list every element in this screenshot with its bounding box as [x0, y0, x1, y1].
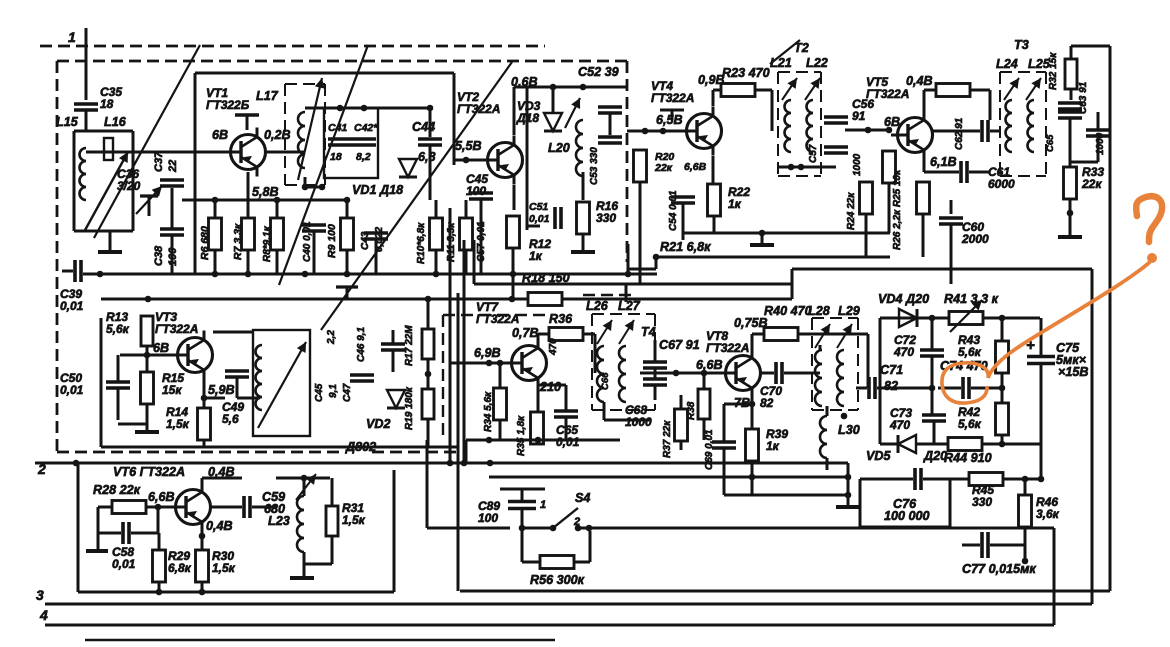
svg-text:1,5к: 1,5к: [166, 417, 190, 431]
resistor R37: [662, 409, 688, 458]
svg-text:0,7В: 0,7В: [512, 326, 539, 340]
capacitor C63: [1058, 81, 1089, 118]
resistor R12: [507, 216, 552, 263]
svg-text:R38: R38: [686, 401, 697, 420]
capacitor C69 label: [704, 429, 715, 470]
svg-text:2,2: 2,2: [326, 330, 337, 345]
svg-text:L24: L24: [996, 57, 1018, 71]
wire R56 loop: [522, 531, 590, 562]
orange question mark: [1136, 196, 1162, 242]
svg-text:R41 3,3 к: R41 3,3 к: [944, 292, 999, 306]
capacitor C46: [381, 344, 405, 350]
wire C45 col: [480, 200, 483, 274]
svg-text:9,1: 9,1: [328, 384, 339, 398]
resistor R25: [883, 151, 904, 250]
inductor L29 label: [838, 304, 860, 318]
transistor VT7 label: [476, 300, 519, 326]
wire C44 up: [429, 108, 432, 137]
inductor L28 label: [808, 304, 830, 318]
svg-text:5,6к: 5,6к: [106, 322, 130, 336]
L22 coil: [807, 100, 814, 152]
svg-text:1к: 1к: [728, 197, 742, 211]
capacitor C45b value: [328, 384, 339, 398]
svg-text:6,6В: 6,6В: [696, 358, 723, 372]
wire VT7 bottom row: [466, 437, 620, 463]
resistor R36: [548, 328, 583, 357]
wire C39 left stub: [62, 270, 73, 273]
svg-text:5,6к: 5,6к: [958, 417, 982, 431]
small T bar mid: [336, 287, 358, 299]
T3 dashed box: [1000, 72, 1046, 176]
svg-text:R32 15к: R32 15к: [1048, 52, 1059, 90]
L26 coil: [597, 346, 604, 402]
svg-text:15к: 15к: [162, 383, 182, 397]
capacitor C75: [1027, 357, 1055, 364]
resistor R34: [483, 388, 507, 432]
wire R42: [999, 388, 1006, 447]
svg-text:0,2В: 0,2В: [264, 128, 291, 142]
transistor VT2: [481, 136, 523, 185]
wire R17 top: [427, 299, 430, 329]
svg-text:18: 18: [330, 151, 342, 163]
wire bus A: [83, 273, 657, 276]
svg-text:22: 22: [167, 160, 179, 173]
junction bus2: [73, 460, 494, 467]
wire VT8 collector: [761, 372, 820, 375]
ground R33: [1058, 210, 1082, 237]
resistor R20: [634, 150, 707, 182]
svg-text:1,5к: 1,5к: [212, 561, 236, 575]
wire C75: [1040, 318, 1043, 444]
svg-text:R6 680: R6 680: [199, 226, 211, 260]
VT1 base cap bar: [235, 115, 259, 130]
capacitor C56: [824, 117, 848, 153]
svg-text:S4: S4: [575, 491, 590, 505]
svg-text:C41: C41: [328, 122, 347, 134]
diode VD5: [898, 435, 916, 453]
wire C58 row: [98, 507, 158, 533]
wire trunk x626: [625, 284, 628, 302]
svg-text:ГТ322А: ГТ322А: [866, 87, 909, 101]
transformer T4 label: [641, 325, 656, 339]
svg-text:82: 82: [760, 396, 774, 410]
svg-text:0,4В: 0,4В: [206, 519, 233, 533]
node 0.75V: [734, 316, 768, 330]
switch S4 label: [575, 491, 590, 505]
svg-text:Д802: Д802: [345, 440, 376, 454]
wire R24 bottom: [865, 214, 868, 257]
inductor L25 label: [1028, 57, 1051, 71]
wire R27 leads: [924, 90, 990, 120]
wire C46 col: [392, 330, 395, 372]
capacitor C71: [869, 377, 875, 399]
svg-text:C77 0,015мк: C77 0,015мк: [962, 562, 1036, 576]
svg-text:T4: T4: [641, 325, 656, 339]
capacitor C41: [328, 122, 352, 163]
svg-text:T2: T2: [794, 41, 809, 55]
capacitor C52b: [598, 137, 622, 143]
wire trunk x628: [625, 244, 632, 277]
wire R19 bottom: [427, 419, 430, 447]
svg-text:1000: 1000: [852, 153, 863, 176]
svg-text:91: 91: [852, 109, 866, 123]
node 6V VT3: [153, 341, 169, 355]
svg-text:R40 470: R40 470: [764, 304, 812, 318]
wire bus 2: [35, 463, 848, 477]
wire VT2 emitter: [513, 185, 516, 210]
svg-text:VD1 Д18: VD1 Д18: [352, 183, 403, 197]
svg-text:2000: 2000: [961, 232, 989, 246]
wire VT5 emitter down: [923, 158, 926, 172]
wire VT7 base: [450, 360, 505, 367]
capacitor C47 value: [326, 330, 337, 345]
junctions bus A VT1: [212, 271, 440, 278]
ground VT4: [684, 230, 890, 245]
node 0.4V VT5: [906, 74, 933, 88]
capacitor C57b: [476, 221, 487, 262]
svg-text:3,6к: 3,6к: [1036, 507, 1060, 521]
diode VD1 label: [352, 183, 403, 197]
junction bus A: [97, 271, 104, 278]
diode VD4: [899, 309, 917, 327]
wire antenna vertical: [85, 28, 88, 100]
transistor VT1 label: [206, 86, 250, 112]
svg-text:5,9В: 5,9В: [208, 383, 235, 397]
dashed shield box top edge: [57, 60, 627, 63]
svg-text:ГТ322Б: ГТ322Б: [206, 98, 250, 112]
wire C72: [929, 315, 936, 388]
VT1 stage box right: [453, 73, 456, 165]
svg-text:L21: L21: [770, 56, 792, 70]
resistor R27: [936, 84, 970, 97]
wire trunk x460: [0, 0, 1, 1]
svg-text:0,01: 0,01: [556, 435, 580, 449]
svg-text:6,9В: 6,9В: [474, 346, 501, 360]
wire net-1 dashed bus: [40, 45, 545, 48]
wire VT8 base: [702, 372, 719, 375]
resistor R17: [422, 329, 434, 359]
node 6.1V: [930, 155, 957, 169]
capacitor C57 value: [852, 153, 863, 176]
L28L29 dashed box: [812, 318, 858, 410]
capacitor C47 sym: [350, 375, 374, 381]
capacitor C61: [961, 161, 1015, 191]
svg-text:6В: 6В: [884, 115, 900, 129]
capacitor C42: [352, 122, 378, 163]
node 6V VT5: [884, 115, 900, 129]
resistor R41 label: [944, 292, 999, 306]
resistor R35: [516, 412, 544, 456]
svg-text:L17: L17: [256, 89, 279, 103]
wire R6 top: [212, 197, 219, 218]
svg-text:C54 0,01: C54 0,01: [668, 190, 679, 231]
L21 coil: [785, 100, 791, 152]
capacitor C74 label: [940, 359, 988, 373]
svg-text:100: 100: [478, 511, 498, 525]
resistor R41: [949, 312, 983, 325]
diode VD2: [387, 390, 405, 408]
capacitor C51: [529, 201, 561, 229]
wire L30: [826, 406, 829, 470]
diode VD1: [399, 159, 417, 177]
inductor L17 label: [256, 89, 279, 103]
resistor R14: [166, 405, 211, 440]
svg-text:R35 1,8к: R35 1,8к: [516, 415, 527, 456]
transistor VT6 label: [113, 465, 235, 479]
capacitor C72 label: [893, 333, 916, 359]
wire trunk x464: [463, 240, 466, 463]
svg-text:R18 150: R18 150: [522, 271, 570, 285]
wire C59 row: [211, 506, 276, 509]
capacitor C74: [963, 377, 969, 399]
wire VT5 base: [845, 127, 892, 134]
resistor R46: [1019, 495, 1032, 527]
L27 coil: [619, 346, 626, 402]
wire R12 bottom: [510, 248, 517, 277]
L25 coil: [1028, 100, 1034, 152]
node 0.7V VT7: [512, 326, 539, 340]
transistor VT8 label: [706, 329, 749, 355]
wire R7 top: [247, 172, 250, 218]
capacitor C50: [106, 382, 130, 388]
dashed shield box right edge: [626, 61, 629, 262]
svg-text:6,8: 6,8: [418, 150, 436, 164]
svg-text:C52 39: C52 39: [578, 65, 619, 79]
L25 tuning arrow: [1026, 78, 1041, 100]
wire R33 bottom: [1069, 199, 1072, 235]
wire VT5 collector up: [923, 90, 926, 113]
inductor L23 coil: [297, 496, 304, 552]
inductor L24 label: [996, 57, 1018, 71]
capacitor C56 label: [852, 97, 874, 123]
svg-text:6,6В: 6,6В: [148, 490, 175, 504]
resistor R32: [1065, 59, 1077, 89]
orange pointer line: [988, 262, 1150, 378]
capacitor C66 lab: [600, 372, 611, 390]
wire C67 col: [654, 340, 657, 400]
wire box right edge x1110: [1109, 46, 1112, 591]
svg-text:8,2: 8,2: [356, 151, 371, 163]
resistor R44: [948, 438, 982, 451]
inductor L17 coil: [298, 112, 305, 168]
wire R32 bottom: [1070, 89, 1073, 100]
wire C44 down: [429, 146, 432, 200]
capacitor C61b: [1058, 103, 1082, 109]
transistor VT3: [171, 331, 213, 380]
wire R14 bottom: [203, 440, 206, 447]
wire L17 bottom: [302, 177, 322, 190]
svg-text:ГТ322А: ГТ322А: [457, 102, 500, 116]
resistor R6: [199, 218, 222, 260]
switch S4 blade: [550, 508, 582, 531]
orange loop around C74: [942, 363, 988, 403]
resistor R26: [917, 182, 930, 214]
wire R20 bottom: [639, 182, 642, 274]
resistor R23: [721, 84, 755, 97]
svg-text:L23: L23: [268, 514, 290, 528]
transistor VT2 label: [457, 90, 500, 116]
L24 tuning arrow: [1004, 78, 1019, 100]
svg-text:330: 330: [972, 495, 992, 509]
resistor R13 label: [106, 310, 130, 336]
node 6.6V VT8: [696, 358, 723, 372]
node 5.9V: [208, 383, 235, 397]
node 6.5V: [656, 113, 683, 127]
capacitor C76: [884, 468, 930, 523]
svg-text:0,01: 0,01: [112, 557, 136, 571]
svg-text:C44: C44: [412, 120, 435, 134]
wire R26 bottom: [922, 214, 925, 257]
svg-text:R23 470: R23 470: [722, 66, 770, 80]
wire R12 row: [527, 225, 540, 228]
VD3 box left edge: [512, 86, 515, 89]
resistor R15: [141, 371, 185, 404]
svg-text:C65: C65: [1045, 134, 1056, 152]
svg-text:C46 9,1: C46 9,1: [356, 327, 367, 362]
T4 dashed box: [592, 314, 655, 410]
wire R39 bottom: [749, 461, 756, 495]
resistor R19 label: [404, 386, 415, 430]
diode VD3 label: [516, 99, 541, 125]
wire VT2 collector up: [513, 87, 516, 135]
svg-text:6В: 6В: [212, 128, 228, 142]
capacitor C57 label: [808, 144, 819, 163]
L26 arrow: [597, 320, 612, 344]
capacitor C35: [74, 85, 122, 111]
resistor R42 label: [958, 405, 982, 431]
wire T4 bottom: [604, 402, 650, 420]
svg-text:ГТ322А: ГТ322А: [651, 91, 694, 105]
svg-text:1к: 1к: [766, 439, 780, 453]
wire R9 top: [344, 197, 351, 218]
L29 coil: [837, 350, 844, 406]
capacitor C65: [554, 411, 580, 449]
wire C61 row: [924, 171, 990, 174]
svg-text:5,8В: 5,8В: [252, 185, 279, 199]
svg-text:0,01: 0,01: [60, 383, 84, 397]
capacitor C71 label: [880, 363, 903, 393]
L28 coil: [815, 350, 822, 406]
svg-text:470: 470: [548, 338, 559, 356]
capacitor C70 label: [760, 384, 782, 410]
wire C50 up: [117, 355, 120, 420]
resistor R40 label: [764, 304, 812, 318]
svg-text:R24 22к: R24 22к: [846, 192, 857, 230]
diode VD2 label: [366, 417, 391, 431]
top right box: [1071, 46, 1110, 59]
L21 tuning arrow: [782, 78, 797, 100]
orange question dot: [1147, 253, 1157, 263]
wire VT6 collector: [202, 478, 242, 485]
inductor L15 coil: [80, 148, 86, 200]
capacitor C89 label: [478, 499, 500, 525]
resistor R24: [846, 182, 873, 230]
transistor VT4 label: [651, 79, 694, 105]
capacitor C59: [244, 490, 285, 518]
svg-text:R7 3,3к: R7 3,3к: [232, 223, 244, 260]
node 5.5V at VT2: [455, 139, 482, 153]
L29 arrow: [837, 324, 852, 348]
wire C37 down: [171, 188, 174, 228]
detector box left: [879, 318, 882, 444]
capacitor C67 label: [659, 338, 700, 352]
inductor L23 label: [268, 514, 290, 528]
svg-text:C66: C66: [600, 372, 611, 390]
wire VT6 bottom: [156, 582, 206, 595]
VT7 stage dashed box top: [443, 295, 633, 440]
wire R36 left: [538, 334, 549, 341]
svg-text:22к: 22к: [654, 162, 673, 174]
resistor R8: [262, 218, 284, 262]
svg-text:R56 300к: R56 300к: [530, 573, 585, 587]
wire VT1 resistors bottom: [215, 232, 466, 274]
wire bus B: [474, 283, 792, 286]
wire R40 right: [798, 334, 868, 388]
capacitor C66 label: [1045, 134, 1056, 152]
L23 tuning arrow: [296, 474, 316, 500]
resistor R7: [232, 218, 255, 260]
wire VT2 base: [454, 157, 481, 164]
wire down x1092: [1091, 269, 1094, 604]
VT3 tank box: [253, 330, 310, 436]
capacitor C69: [712, 442, 736, 448]
wire C89 top: [500, 489, 545, 501]
capacitor C77 label: [962, 562, 1036, 576]
wire R41 right: [983, 315, 1040, 322]
svg-text:C37: C37: [153, 151, 165, 172]
wire R45 right: [1003, 476, 1044, 483]
L17 tuning arrow: [298, 78, 325, 180]
capacitor C53 label: [589, 147, 600, 185]
wire bus 3: [45, 603, 1092, 606]
R41 arrow: [950, 300, 982, 332]
node 0.6V: [511, 75, 538, 89]
wire VT4 base: [627, 128, 680, 135]
svg-text:ГТ322А: ГТ322А: [155, 322, 198, 336]
capacitor C60: [939, 218, 989, 246]
resistor R22: [708, 184, 751, 216]
wire tank to C37: [86, 151, 196, 154]
resistor R45 label: [972, 483, 994, 509]
wire R12 stub: [512, 274, 515, 299]
svg-text:C40 0,01: C40 0,01: [302, 221, 313, 262]
VT6 box left: [77, 463, 80, 592]
capacitor C46 label: [356, 327, 367, 362]
svg-text:330: 330: [596, 211, 616, 225]
wire VD5 row: [880, 443, 948, 446]
wire C74 row: [938, 387, 1002, 390]
wire R10 top: [435, 200, 438, 218]
transformer T3 label: [1014, 38, 1029, 52]
junction L28 base: [841, 413, 848, 420]
dashed shield box left edge: [56, 61, 59, 452]
capacitor C73 label: [889, 406, 912, 432]
wire bus B riser x792: [791, 269, 794, 299]
wire bus S4 out: [589, 527, 1054, 530]
VT6 box bottom: [78, 591, 394, 594]
wire C38 to bus: [171, 236, 174, 273]
wire R13 R15: [146, 346, 149, 372]
L28 arrow: [815, 324, 830, 348]
L17 dashed box: [285, 84, 325, 185]
wire detector out: [1040, 444, 1043, 479]
resistor R36 label: [549, 312, 573, 326]
VT4 base cap bar: [660, 110, 684, 120]
wire R43: [999, 318, 1006, 391]
wire VT1 base: [196, 151, 224, 154]
VT3 tank varicap arrow: [258, 342, 306, 428]
capacitor C73: [922, 415, 946, 421]
